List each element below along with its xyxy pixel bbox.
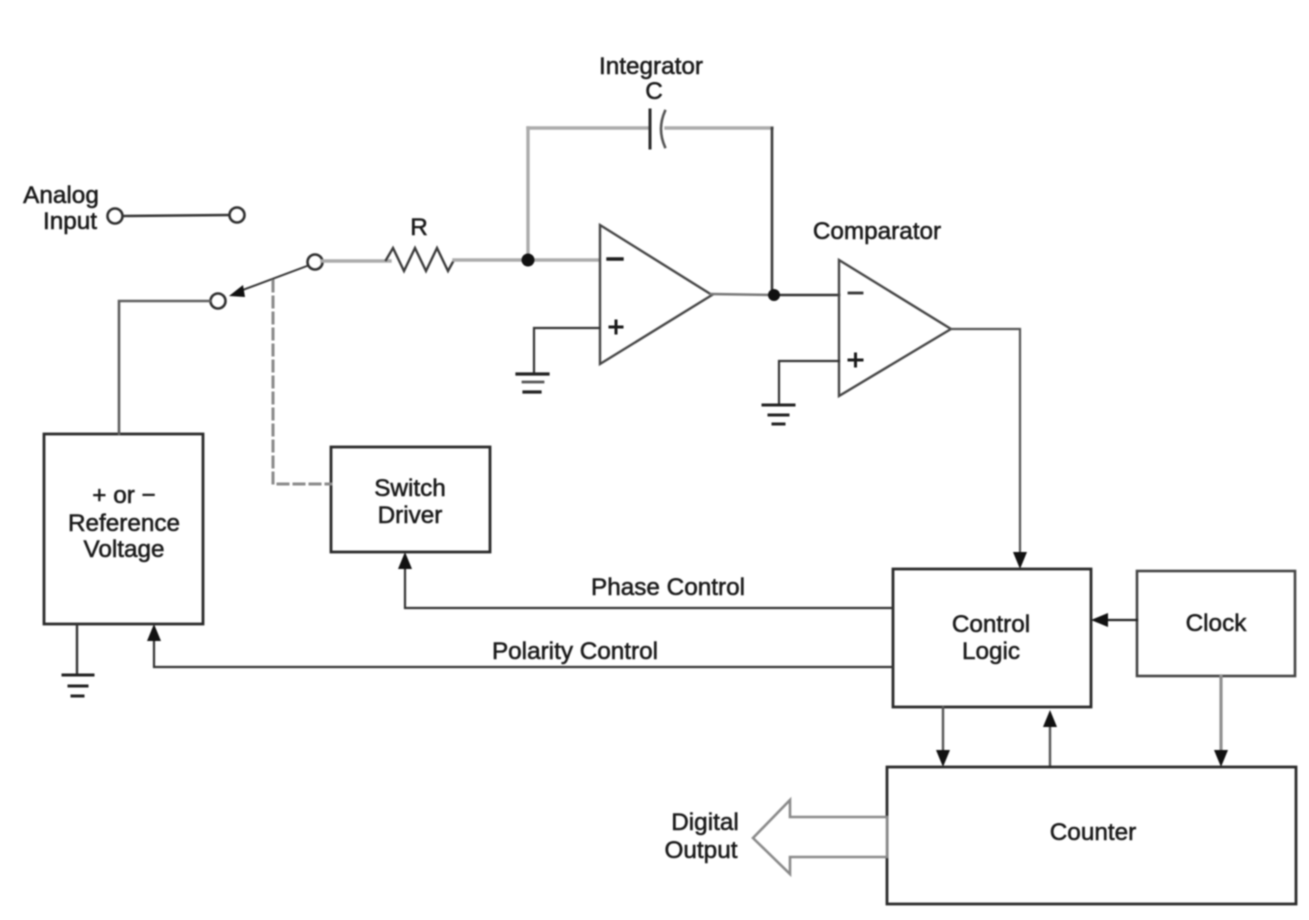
- wire control logic to counter: [942, 707, 944, 758]
- node: analog input left terminal: [108, 209, 123, 224]
- wire feedback right vertical: [771, 128, 774, 295]
- dashed link switch driver to switch: [273, 281, 331, 484]
- ground at U2: [763, 404, 794, 407]
- svg-text:Phase Control: Phase Control: [591, 574, 745, 601]
- box Control Logic: [893, 569, 1091, 707]
- svg-text:Logic: Logic: [962, 638, 1020, 665]
- wire feedback top right: [666, 126, 772, 129]
- ground at reference: [63, 674, 93, 677]
- switch S1 throw terminal: [211, 294, 226, 309]
- box Clock: [1137, 571, 1295, 676]
- wire phase control: [405, 561, 893, 608]
- resistor R: [386, 248, 454, 271]
- box Switch Driver: [331, 447, 490, 552]
- wire U1 non-inverting input: [534, 328, 599, 373]
- svg-text:C: C: [645, 78, 663, 105]
- svg-text:Counter: Counter: [1050, 819, 1136, 846]
- wire U1 output: [711, 294, 774, 295]
- switch S1 pole terminal: [308, 255, 323, 270]
- svg-text:Polarity Control: Polarity Control: [492, 638, 658, 665]
- svg-text:Input: Input: [43, 208, 97, 235]
- svg-text:Voltage: Voltage: [83, 536, 164, 563]
- wire feedback top left: [528, 126, 648, 129]
- svg-text:R: R: [410, 214, 428, 241]
- node: integrator summing junction: [522, 254, 535, 267]
- svg-text:Integrator: Integrator: [599, 53, 703, 80]
- svg-text:Switch: Switch: [374, 475, 446, 502]
- wire clock to control logic: [1100, 619, 1137, 621]
- node: analog input right terminal: [230, 208, 245, 223]
- wire reference to switch throw: [119, 301, 210, 434]
- capacitor C left plate: [649, 110, 652, 148]
- svg-text:Clock: Clock: [1186, 610, 1248, 637]
- svg-text:Control: Control: [952, 611, 1030, 638]
- box Reference Voltage: [44, 434, 203, 624]
- digital output bus arrow: [753, 800, 887, 874]
- wire resistor to summing node: [454, 258, 528, 261]
- node: integrator output junction: [768, 289, 780, 301]
- ground at U1: [517, 372, 548, 375]
- wire reference to ground: [76, 624, 78, 675]
- switch S1 arm: [240, 266, 307, 291]
- wire feedback left vertical: [526, 128, 529, 260]
- svg-text:Driver: Driver: [378, 502, 443, 529]
- svg-text:Analog: Analog: [23, 182, 99, 209]
- wire U2 non-inverting input: [779, 361, 839, 405]
- svg-text:Reference: Reference: [68, 510, 180, 537]
- wire switch to resistor: [322, 259, 390, 262]
- wire to comparator input: [774, 294, 839, 297]
- svg-text:Digital: Digital: [671, 809, 739, 836]
- svg-text:+ or −: + or −: [92, 482, 155, 509]
- svg-text:Output: Output: [665, 837, 738, 864]
- wire analog input: [123, 215, 229, 216]
- wire clock to counter: [1219, 676, 1222, 758]
- op-amp U1 integrator: [600, 225, 712, 364]
- box Counter: [887, 767, 1296, 904]
- svg-text:Comparator: Comparator: [813, 218, 941, 245]
- op-amp U2 comparator: [839, 260, 951, 396]
- wire polarity control: [154, 633, 893, 667]
- capacitor C right plate: [661, 111, 665, 147]
- wire counter to control logic: [1049, 718, 1051, 767]
- wire comparator output to control logic: [951, 329, 1020, 560]
- wire summing node to op-amp: [528, 258, 599, 261]
